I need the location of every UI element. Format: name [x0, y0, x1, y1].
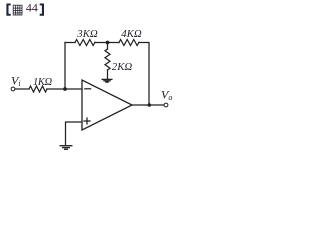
svg-text:44: 44 — [26, 1, 38, 15]
input terminal Vi circle — [11, 87, 15, 91]
wire input terminal to R 1K — [15, 88, 29, 90]
character 圖 — [13, 5, 22, 15]
ground at non-inverting input — [60, 146, 73, 150]
resistor 4KΩ — [119, 40, 139, 46]
right bracket 】 — [40, 4, 44, 16]
svg-text:4KΩ: 4KΩ — [121, 28, 142, 40]
wire 4K to right corner and down to output — [139, 43, 149, 106]
wire 2K branch upper — [107, 43, 109, 50]
node junction at inverting input — [63, 87, 67, 91]
wire 2K to ground — [107, 70, 109, 79]
wire top rail left segment — [65, 42, 75, 44]
resistor 2KΩ vertical — [105, 49, 110, 70]
node junction at 2K tap — [106, 41, 110, 45]
node junction at output — [148, 103, 152, 107]
wire output — [132, 104, 164, 106]
svg-text:1KΩ: 1KΩ — [33, 77, 52, 88]
op-amp plus sign — [84, 118, 90, 124]
ground under 2K resistor — [102, 79, 113, 82]
resistor 3KΩ — [75, 40, 95, 46]
wire feedback vertical left — [64, 43, 66, 90]
svg-text:2KΩ: 2KΩ — [112, 61, 133, 73]
wire non-inverting input to ground — [66, 122, 83, 145]
figure title 【圖 44】 — [6, 1, 44, 16]
svg-text:3KΩ: 3KΩ — [76, 28, 98, 40]
left bracket 【 — [6, 4, 10, 16]
op-amp minus sign — [85, 88, 91, 90]
wire 3K to node — [95, 42, 119, 44]
wire R1K to op-amp inverting input — [47, 88, 82, 90]
resistor 1KΩ — [29, 86, 47, 92]
op-amp U1 triangle — [82, 80, 132, 130]
output terminal Vo circle — [164, 103, 168, 107]
